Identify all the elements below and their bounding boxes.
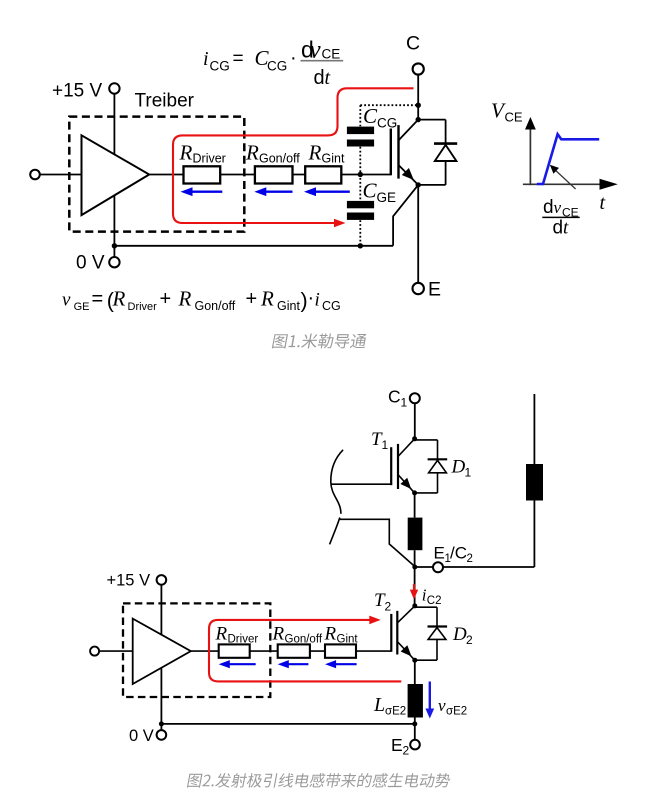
svg-text:i: i [203, 48, 209, 70]
svg-text:2: 2 [467, 553, 473, 565]
svg-text:+: + [160, 288, 172, 310]
svg-text:R: R [215, 624, 228, 645]
svg-text:Gint: Gint [322, 152, 345, 166]
svg-text:R: R [260, 287, 274, 311]
svg-text:Gint: Gint [337, 634, 359, 646]
svg-text:CG: CG [210, 59, 230, 74]
svg-text:+: + [246, 288, 258, 310]
svg-text:=: = [92, 288, 104, 310]
svg-text:v: v [310, 37, 322, 64]
svg-text:Driver: Driver [228, 634, 259, 646]
svg-text:C: C [363, 104, 378, 128]
svg-text:R: R [179, 141, 193, 165]
svg-text:0 V: 0 V [129, 727, 154, 745]
svg-text:Driver: Driver [128, 301, 158, 313]
svg-text:D: D [451, 457, 466, 478]
svg-text:Gon/off: Gon/off [285, 634, 323, 646]
svg-text:1: 1 [382, 438, 389, 452]
svg-text:C: C [406, 33, 420, 55]
svg-text:+15 V: +15 V [107, 572, 151, 590]
svg-text:CG: CG [267, 59, 287, 74]
svg-text:Gint: Gint [277, 299, 300, 313]
svg-text:0 V: 0 V [76, 253, 105, 274]
svg-text:R: R [245, 141, 259, 165]
svg-text:R: R [272, 624, 285, 645]
svg-text:σE2: σE2 [446, 706, 467, 718]
svg-text:L: L [373, 694, 385, 716]
svg-text:t: t [563, 218, 569, 239]
svg-text:C: C [363, 179, 378, 203]
svg-text:2: 2 [385, 600, 392, 614]
svg-text:Driver: Driver [193, 152, 226, 166]
svg-text:2: 2 [466, 633, 473, 647]
svg-text:t: t [325, 67, 331, 89]
svg-text:1: 1 [465, 466, 472, 480]
svg-text:R: R [324, 624, 337, 645]
svg-text:GE: GE [74, 301, 90, 313]
svg-text:+15 V: +15 V [52, 81, 103, 102]
svg-text:t: t [600, 192, 606, 214]
svg-text:Gon/off: Gon/off [195, 299, 236, 313]
svg-text:Treiber: Treiber [135, 91, 195, 112]
svg-text:R: R [112, 287, 126, 311]
svg-text:σE2: σE2 [385, 706, 406, 718]
svg-text:CG: CG [377, 116, 397, 131]
svg-text:GE: GE [377, 190, 397, 205]
svg-text:·: · [308, 287, 315, 309]
svg-text:R: R [308, 141, 322, 165]
svg-text:D: D [452, 624, 467, 645]
svg-text:i: i [315, 290, 320, 311]
svg-text:d: d [314, 67, 325, 89]
svg-text:d: d [543, 197, 554, 218]
svg-text:E: E [434, 544, 445, 563]
svg-text:C: C [388, 387, 401, 407]
svg-text:CE: CE [505, 110, 523, 125]
svg-text:v: v [438, 696, 446, 715]
svg-text:CE: CE [322, 47, 341, 62]
svg-text:/C: /C [450, 544, 467, 563]
svg-text:E: E [428, 279, 441, 301]
svg-text:2: 2 [403, 744, 410, 758]
svg-text:R: R [178, 287, 192, 311]
svg-text:·: · [290, 47, 297, 69]
svg-text:=: = [233, 49, 244, 70]
svg-text:Gon/off: Gon/off [259, 152, 300, 166]
svg-text:E: E [391, 735, 403, 755]
svg-text:1: 1 [401, 396, 408, 410]
svg-text:d: d [553, 218, 564, 239]
svg-text:C2: C2 [427, 595, 442, 607]
svg-text:v: v [554, 198, 562, 217]
svg-text:v: v [62, 290, 71, 311]
svg-text:CG: CG [322, 299, 341, 313]
